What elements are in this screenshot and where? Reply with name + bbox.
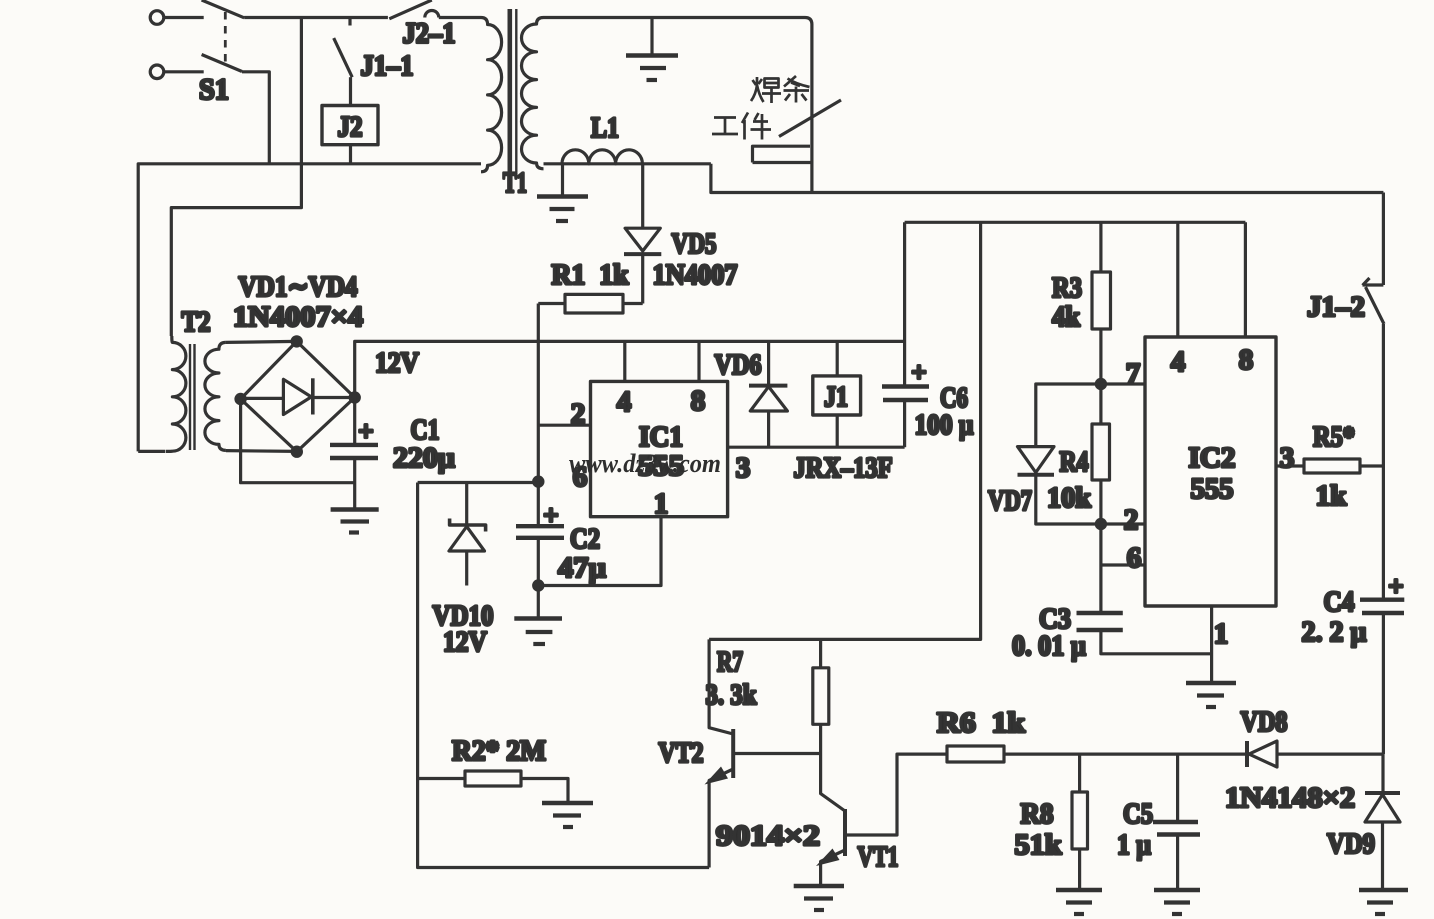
diode VD9 — [1365, 754, 1400, 888]
switch J2-1 — [389, 0, 481, 19]
svg-text:VD6: VD6 — [715, 349, 762, 381]
svg-text:VT1: VT1 — [858, 841, 899, 873]
svg-text:2: 2 — [571, 398, 586, 430]
bridge rectifier VD1~VD4 diamond — [241, 341, 355, 451]
ground VD9 — [1359, 890, 1408, 914]
svg-text:J1–2: J1–2 — [1307, 291, 1365, 323]
wire pin2/6 branch — [418, 481, 539, 484]
svg-text:J2: J2 — [338, 111, 363, 143]
svg-text:T1: T1 — [503, 167, 527, 199]
diode VD8 — [1247, 741, 1383, 767]
svg-text:3: 3 — [736, 452, 751, 484]
pin 8 stub IC1 — [697, 341, 700, 381]
svg-text:51k: 51k — [1015, 829, 1063, 861]
S1 gang dashed link — [224, 12, 227, 64]
op IC1 555 box — [591, 381, 728, 516]
wire R1 left drop — [537, 304, 540, 482]
transformer T1 secondary winding — [521, 18, 543, 169]
ground C1 — [331, 510, 379, 533]
capacitor C2 — [516, 482, 564, 586]
svg-text:1 µ: 1 µ — [1117, 829, 1151, 861]
svg-text:C5: C5 — [1123, 798, 1153, 830]
relay coil J2 — [322, 106, 378, 164]
svg-text:T2: T2 — [182, 306, 211, 338]
svg-text:R3: R3 — [1052, 272, 1082, 304]
resistor R8 — [1072, 754, 1088, 888]
svg-text:+: + — [1388, 571, 1403, 601]
svg-text:3. 3k: 3. 3k — [706, 679, 758, 711]
diode VD6 — [749, 341, 787, 447]
svg-text:VT2: VT2 — [659, 737, 704, 769]
wire step down to sense rail — [711, 164, 1384, 193]
svg-text:R1 1k: R1 1k — [552, 259, 630, 291]
svg-text:JRX–13F: JRX–13F — [794, 452, 893, 484]
wire top rail left — [244, 16, 388, 19]
svg-text:VD5: VD5 — [672, 228, 717, 260]
svg-text:VD7: VD7 — [988, 485, 1032, 517]
capacitor C1 — [330, 398, 378, 509]
svg-text:4: 4 — [617, 386, 632, 418]
wire neutral rail y163 — [138, 164, 481, 452]
svg-text:www.dz3w.com: www.dz3w.com — [569, 449, 721, 478]
ground C2/VD10 — [514, 586, 562, 645]
svg-text:R6 1k: R6 1k — [937, 707, 1026, 739]
svg-text:47µ: 47µ — [558, 552, 606, 584]
svg-text:9014×2: 9014×2 — [716, 820, 820, 852]
wire bottom return — [418, 483, 709, 868]
svg-text:4: 4 — [1171, 346, 1186, 378]
bridge inner diode — [241, 378, 355, 414]
transformer T1 primary winding — [481, 18, 502, 172]
ground IC2 pin1 — [1186, 683, 1236, 707]
transformer T2 secondary winding — [205, 342, 226, 450]
svg-text:R2* 2M: R2* 2M — [452, 735, 546, 767]
svg-text:IC2: IC2 — [1189, 442, 1236, 474]
wire secondary loop top — [544, 18, 812, 163]
svg-text:12V: 12V — [375, 347, 419, 379]
resistor R1 — [538, 294, 642, 313]
svg-text:2. 2 µ: 2. 2 µ — [1302, 616, 1367, 648]
label 工件 — [712, 113, 771, 140]
svg-text:1: 1 — [654, 488, 669, 520]
capacitor C5 — [1153, 754, 1200, 888]
svg-text:555: 555 — [1191, 473, 1234, 505]
transistor VT2 — [705, 639, 734, 867]
zener VD10 — [449, 483, 486, 586]
svg-text:1N4007: 1N4007 — [653, 259, 738, 291]
node bridge bottom — [292, 447, 301, 456]
transformer T2 core — [190, 344, 195, 450]
ground secondary top — [626, 18, 678, 81]
svg-text:1k: 1k — [1316, 480, 1348, 512]
inductor L1 — [562, 150, 642, 164]
svg-text:7: 7 — [1126, 358, 1141, 390]
pin 3 wire IC1 — [728, 446, 905, 449]
svg-text:J2–1: J2–1 — [403, 18, 456, 50]
pin 7 wire IC2 — [1101, 382, 1145, 385]
svg-text:3: 3 — [1280, 442, 1295, 474]
svg-text:1N4148×2: 1N4148×2 — [1225, 782, 1355, 814]
transformer T1 core — [510, 9, 517, 172]
resistor R4 — [1092, 384, 1110, 524]
svg-text:100 µ: 100 µ — [915, 409, 974, 441]
wire 12V rail — [355, 341, 906, 397]
wire S1 to drop — [242, 72, 269, 164]
svg-text:R4: R4 — [1060, 446, 1089, 478]
diode VD7 — [1018, 384, 1101, 524]
node bridge left — [236, 394, 245, 403]
svg-text:C2: C2 — [570, 523, 600, 555]
wire 12V riser to collector rail — [709, 222, 981, 639]
svg-text:12V: 12V — [443, 626, 487, 658]
svg-text:S1: S1 — [199, 73, 229, 106]
svg-text:1: 1 — [1214, 618, 1229, 650]
op IC2 555 box — [1145, 337, 1276, 606]
svg-text:J1–1: J1–1 — [361, 50, 414, 82]
ground R8 — [1056, 890, 1102, 914]
svg-text:R7: R7 — [717, 646, 743, 678]
svg-text:8: 8 — [1239, 344, 1254, 376]
pin 2 stub IC1 — [538, 424, 590, 427]
workpiece box 工件 — [753, 146, 811, 162]
svg-text:R5*: R5* — [1313, 421, 1355, 453]
switch S1 blade lower — [202, 55, 242, 72]
svg-text:220µ: 220µ — [393, 442, 455, 474]
resistor R7 — [813, 639, 829, 753]
svg-text:VD8: VD8 — [1241, 706, 1288, 738]
welding rod slant line — [779, 100, 841, 137]
svg-text:+: + — [911, 357, 926, 387]
svg-text:6: 6 — [1127, 542, 1142, 574]
label 焊条 (welding rod) — [751, 76, 810, 103]
node bridge right — [350, 393, 359, 402]
relay coil J1 — [813, 341, 861, 447]
svg-text:J1: J1 — [824, 381, 848, 413]
svg-text:8: 8 — [691, 385, 706, 417]
switch J1-2 — [1363, 193, 1385, 600]
pin 4 stub IC1 — [623, 341, 626, 381]
ground C5 — [1154, 890, 1200, 914]
switch J1-1 — [334, 18, 353, 106]
svg-text:10k: 10k — [1047, 482, 1092, 514]
diode VD5 — [624, 164, 661, 304]
svg-text:+: + — [358, 416, 373, 446]
wire VCC rail2 IC2 — [905, 221, 1246, 224]
terminal input 2 — [150, 65, 204, 79]
pin 8 stub IC2 — [1244, 222, 1247, 337]
svg-text:0. 01 µ: 0. 01 µ — [1012, 630, 1086, 662]
wire pin1 to gnd row — [538, 517, 661, 586]
node bridge top — [292, 337, 301, 346]
capacitor C6 — [882, 222, 929, 447]
svg-text:2: 2 — [1124, 504, 1139, 536]
svg-text:R8: R8 — [1021, 798, 1054, 830]
transformer T2 primary winding — [166, 336, 186, 451]
pin 1 stub IC2 — [1210, 606, 1213, 682]
svg-text:1N4007×4: 1N4007×4 — [233, 301, 363, 333]
pin 3 wire IC2 — [1276, 464, 1304, 467]
svg-text:+: + — [543, 500, 558, 530]
resistor R3 — [1092, 222, 1111, 384]
resistor R6 — [947, 746, 1247, 762]
svg-text:L1: L1 — [591, 112, 619, 144]
wire loop bottom with workpiece — [753, 163, 812, 193]
terminal input 1 — [150, 11, 204, 25]
pin 6 wire IC2 — [1101, 563, 1145, 566]
svg-text:C4: C4 — [1324, 586, 1355, 618]
switch S1 blade upper — [202, 0, 245, 18]
svg-text:4k: 4k — [1052, 301, 1081, 333]
ground L1 left — [537, 164, 588, 221]
wire L1 row — [544, 162, 711, 165]
capacitor C4 — [1360, 600, 1404, 754]
ground R2 — [542, 803, 593, 827]
node pin2/6 junction — [534, 477, 543, 486]
wire T2 feed left — [138, 450, 165, 453]
svg-text:VD1∼VD4: VD1∼VD4 — [239, 271, 358, 303]
wire VT2 base — [735, 752, 821, 755]
node pin7 junction — [1096, 379, 1105, 388]
pin 2 wire IC2 — [1101, 522, 1145, 525]
wire L line drop — [171, 18, 301, 337]
transistor VT1 — [816, 754, 947, 885]
wire bridge left to 0V — [241, 399, 355, 483]
svg-text:VD9: VD9 — [1327, 828, 1375, 860]
node pin2 junction IC2 — [1096, 519, 1105, 528]
node C2 bottom junction — [534, 581, 543, 590]
ground VT1 emitter — [794, 886, 844, 910]
wire T2 to bridge top — [226, 341, 297, 342]
pin 4 stub IC2 — [1176, 222, 1179, 337]
resistor R2 — [418, 771, 568, 801]
capacitor C3 — [1077, 524, 1212, 654]
wire T2 to bridge bottom — [226, 449, 297, 453]
resistor R5 — [1304, 459, 1383, 473]
